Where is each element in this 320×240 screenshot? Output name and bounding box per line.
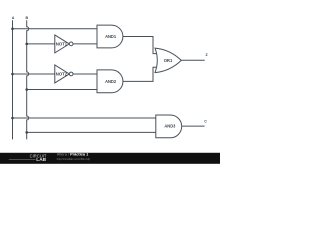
svg-text:AND3: AND3 (164, 124, 175, 129)
svg-text:http://circuitlab.com/c/86mzq6: http://circuitlab.com/c/86mzq6 (57, 157, 90, 161)
svg-text:AND1: AND1 (105, 34, 116, 39)
svg-text:B: B (25, 16, 28, 20)
svg-text:AND2: AND2 (105, 79, 116, 84)
svg-text:C: C (204, 119, 207, 123)
svg-text:A: A (12, 16, 15, 20)
svg-text:NOT1: NOT1 (56, 41, 68, 46)
svg-text:OR1: OR1 (164, 58, 173, 63)
svg-text:LAB: LAB (36, 157, 46, 162)
svg-text:NOT2: NOT2 (56, 71, 68, 76)
